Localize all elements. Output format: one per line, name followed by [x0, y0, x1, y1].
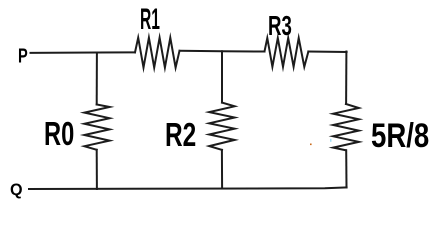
resistor R3	[265, 38, 309, 67]
resistor R2	[209, 103, 234, 150]
node P label	[18, 46, 28, 66]
resistor R3 value label	[268, 12, 292, 40]
node B: junction of R1 / R2 / R3 on top rail	[221, 51, 223, 102]
resistor R0	[84, 105, 109, 150]
wire: right branch vertical (5R/8 down to bottom rail)	[345, 150, 347, 187]
resistor 5R/8	[333, 104, 359, 150]
resistor R1	[135, 38, 180, 68]
resistor 5R/8 value label	[371, 119, 429, 153]
node A: junction of R0 / R1 on top rail	[96, 53, 98, 105]
stray mark (cyan tick artifact)	[330, 139, 331, 142]
resistor R1 value label	[140, 6, 160, 35]
wire: R2 down to bottom rail	[221, 150, 223, 188]
wire: bottom rail from node Q to right corner	[29, 187, 347, 189]
wire: top rail from R1 to R3	[180, 50, 265, 53]
stray mark (orange dot artifact)	[310, 144, 312, 146]
wire: top rail from R3 to top-right corner	[308, 51, 346, 54]
resistor R2 value label	[165, 118, 196, 151]
wire: right branch vertical (top-right corner down to 5R/8)	[345, 52, 347, 105]
node Q label	[10, 181, 23, 198]
wire: R0 down to bottom rail	[96, 150, 98, 189]
wire: top rail from node P to R1	[31, 51, 136, 54]
resistor R0 value label	[44, 117, 74, 150]
